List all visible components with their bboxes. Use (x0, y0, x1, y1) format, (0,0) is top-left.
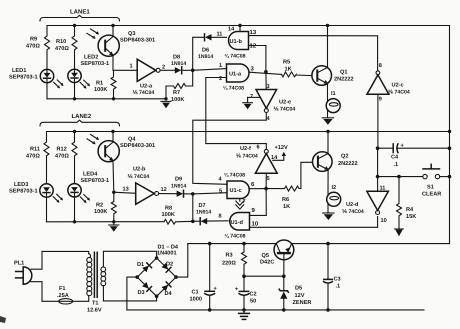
svg-text:R9: R9 (30, 37, 37, 43)
svg-text:C1: C1 (192, 290, 199, 296)
wire Q2 collector riser (327, 132, 329, 154)
transistor Q1 (312, 66, 332, 86)
wire Q5 emitter bus to right rail (292, 243, 450, 245)
resistor R2 (111, 192, 116, 222)
svg-text:U2-c: U2-c (392, 83, 404, 89)
svg-text:LED4: LED4 (83, 171, 98, 177)
diode D7 (193, 218, 228, 225)
svg-text:¼ 74C08: ¼ 74C08 (225, 234, 246, 240)
inverter U2-e (256, 72, 277, 113)
ground under C2 (239, 310, 250, 320)
junction dots top rail (73, 24, 76, 27)
ground lane1 (161, 101, 171, 108)
svg-text:⅙ 74C04: ⅙ 74C04 (388, 89, 410, 95)
capacitor C4 (378, 144, 450, 153)
svg-text:220Ω: 220Ω (222, 261, 236, 267)
op-amp U2-a inverter (137, 59, 160, 81)
inverter U2-f (255, 149, 277, 173)
svg-text:U2-d: U2-d (346, 201, 359, 208)
capacitor C3 (324, 244, 333, 310)
svg-text:100K: 100K (94, 87, 107, 93)
svg-text:470Ω: 470Ω (55, 154, 69, 160)
svg-text:D5: D5 (295, 285, 302, 291)
svg-text:CLEAR: CLEAR (422, 192, 441, 198)
svg-text:LED3: LED3 (14, 182, 28, 188)
svg-text:⅙ 74C04: ⅙ 74C04 (236, 153, 258, 159)
LED3 (40, 184, 63, 203)
svg-text:13: 13 (123, 187, 129, 193)
svg-text:.25A: .25A (57, 293, 69, 299)
wire +12V top rail (47, 25, 450, 27)
lamp I2 (327, 192, 341, 206)
svg-text:R4: R4 (406, 207, 414, 213)
svg-text:100K: 100K (171, 97, 184, 103)
diode D8 (175, 67, 193, 74)
svg-text:1N914: 1N914 (196, 209, 211, 215)
wire LED3 cathode to lane2 ground bus (46, 197, 48, 222)
svg-text:R5: R5 (283, 60, 290, 66)
svg-text:470Ω: 470Ω (55, 46, 69, 52)
svg-text:12V: 12V (295, 293, 305, 299)
resistor R7 (166, 70, 193, 99)
svg-text:2N2222: 2N2222 (338, 161, 358, 167)
svg-text:10: 10 (381, 218, 387, 224)
svg-text:F1: F1 (59, 286, 66, 292)
scan artifact bottom-left corner (0, 316, 6, 323)
LED2 (68, 69, 90, 88)
svg-text:+12V: +12V (275, 145, 288, 151)
wire U1-b pin13 to U2-c output (249, 36, 378, 71)
plug PL1 (16, 267, 32, 284)
svg-text:C3: C3 (334, 277, 341, 283)
svg-text:1: 1 (219, 63, 222, 69)
svg-text:T1: T1 (92, 301, 99, 307)
ground under I1 (322, 110, 333, 125)
svg-text:SEP8703-1: SEP8703-1 (9, 75, 38, 81)
wire bridge positive riser (176, 244, 188, 278)
wire Q1 collector riser (327, 26, 329, 68)
wire lane2 ground bus (47, 221, 165, 223)
wire Q4 emitter node to U2-b input (114, 192, 136, 193)
wire R6 to Q2 base (301, 162, 312, 188)
svg-text:U2-e: U2-e (279, 99, 291, 105)
switch S1 (423, 164, 440, 179)
wire U1-b pin12 to U1-a output (249, 46, 266, 72)
svg-text:⅙ 74C04: ⅙ 74C04 (133, 90, 155, 96)
resistor R12 (72, 132, 77, 184)
svg-text:1N914: 1N914 (171, 183, 186, 189)
svg-text:U1-d: U1-d (231, 219, 244, 226)
svg-text:D6: D6 (202, 48, 209, 54)
svg-text:10: 10 (252, 221, 259, 228)
svg-text:U2-a: U2-a (140, 83, 153, 89)
svg-text:D9: D9 (175, 176, 182, 182)
AND gate U1-a (227, 64, 250, 82)
svg-text:LANE1: LANE1 (70, 9, 90, 16)
wire U1-a pin 2 to U2-f output (206, 78, 266, 150)
svg-text:R11: R11 (30, 147, 40, 153)
svg-text:14: 14 (271, 155, 278, 161)
capacitor C1 (205, 244, 215, 310)
svg-text:9: 9 (379, 97, 382, 103)
svg-text:1K: 1K (285, 66, 292, 72)
lamp I1 (326, 99, 340, 113)
svg-text:U1-b: U1-b (230, 38, 243, 45)
wire N1 up to D6 (193, 37, 204, 70)
LANE2 bracket (40, 120, 120, 126)
transistor Q2 (313, 152, 333, 172)
svg-text:Q3: Q3 (128, 31, 135, 37)
wire N2a to U1-c pin 5 (193, 193, 227, 194)
svg-text:5: 5 (219, 189, 222, 195)
svg-text:SDP8403-301: SDP8403-301 (120, 143, 155, 149)
resistor R1 (111, 70, 116, 99)
svg-text:R3: R3 (226, 253, 233, 259)
phototransistor Q4 (87, 132, 119, 193)
svg-text:8: 8 (379, 63, 382, 69)
resistor R8 (164, 219, 193, 224)
svg-text:⅙ 74C04: ⅙ 74C04 (342, 209, 364, 215)
svg-text:R8: R8 (165, 205, 172, 211)
svg-text:U2-f: U2-f (240, 145, 251, 152)
wire U2-f input from U1-c out node (265, 173, 267, 188)
inverter U2-b (136, 183, 159, 204)
svg-text:I1: I1 (331, 91, 336, 97)
svg-text:SDP8403-301: SDP8403-301 (120, 37, 155, 43)
node N1 (191, 69, 195, 73)
wire U2-e output to U1-c pin 4 (feedback) (193, 113, 266, 185)
AND gate U1-c (227, 181, 249, 199)
diode D6 (205, 34, 227, 41)
svg-text:¼ 74C08: ¼ 74C08 (224, 172, 245, 178)
svg-text:470Ω: 470Ω (26, 154, 40, 160)
wire secondary bottom to bridge (103, 286, 156, 301)
svg-text:11: 11 (217, 31, 223, 37)
svg-text:I2: I2 (332, 185, 337, 191)
svg-text:14: 14 (228, 27, 235, 33)
svg-text:470Ω: 470Ω (26, 44, 40, 50)
svg-text:12.6V: 12.6V (87, 308, 102, 314)
wire secondary top to bridge (103, 251, 156, 266)
svg-text:SEP8703-1: SEP8703-1 (81, 178, 110, 184)
svg-text:U1-a: U1-a (229, 72, 242, 78)
svg-text:Q1: Q1 (340, 70, 347, 76)
resistor R3 (242, 244, 247, 277)
ground under I2 (323, 203, 334, 220)
svg-text:ZENER: ZENER (293, 300, 312, 306)
svg-text:¼ 74C08: ¼ 74C08 (225, 54, 246, 60)
svg-text:.1: .1 (336, 284, 341, 290)
LANE1 bracket (40, 15, 120, 21)
svg-text:SEP8703-1: SEP8703-1 (81, 61, 110, 67)
svg-text:R7: R7 (173, 90, 180, 96)
AND gate U1-d (mirrored) (230, 213, 250, 231)
capacitor C2 (239, 276, 249, 310)
resistor R4 (397, 177, 402, 229)
svg-text:7: 7 (243, 199, 246, 205)
wire U2-a output to D8 (160, 69, 175, 71)
svg-text:11: 11 (380, 186, 386, 192)
svg-text:12: 12 (161, 187, 167, 193)
svg-text:R6: R6 (282, 197, 289, 203)
svg-text:R1: R1 (96, 80, 103, 86)
svg-text:¼ 74C08: ¼ 74C08 (223, 86, 244, 92)
+12V arrow U2-f pin 14 (273, 152, 286, 161)
resistor R6 (266, 186, 301, 191)
svg-text:D3: D3 (138, 290, 145, 296)
wire Q3 emitter node to U2-a input (113, 69, 137, 71)
svg-text:1K: 1K (283, 204, 290, 210)
svg-text:C4: C4 (391, 155, 399, 161)
svg-text:D2: D2 (166, 262, 173, 268)
svg-text:D8: D8 (173, 54, 180, 60)
svg-text:D42C: D42C (260, 260, 274, 266)
svg-text:1N4001: 1N4001 (157, 251, 177, 257)
ground under R2 (109, 222, 119, 232)
svg-text:8: 8 (219, 214, 222, 220)
svg-text:⅙ 74C04: ⅙ 74C04 (128, 174, 150, 180)
svg-text:R12: R12 (57, 147, 67, 153)
ground arrow under R4 (395, 229, 404, 236)
svg-text:12: 12 (250, 43, 257, 50)
resistor R10 (72, 26, 77, 70)
wire +12V unregulated bus (188, 243, 277, 245)
bridge rectifier D1-D4 (137, 258, 176, 296)
fuse F1 (59, 299, 73, 304)
svg-text:50: 50 (250, 298, 256, 304)
svg-text:PL1: PL1 (14, 261, 24, 267)
wire lane2 +12V rail (47, 131, 450, 133)
svg-text:LED2: LED2 (84, 55, 98, 61)
svg-text:C2: C2 (250, 292, 257, 298)
svg-text:U1-c: U1-c (230, 188, 242, 194)
svg-text:.1: .1 (394, 162, 399, 168)
LED4 (68, 184, 90, 203)
svg-text:D7: D7 (199, 203, 206, 209)
svg-text:Q2: Q2 (341, 153, 348, 159)
node N2a (191, 192, 195, 196)
transistor Q5 (274, 240, 294, 276)
wire R3 to Q5 base node (244, 275, 284, 277)
resistor R5 (282, 72, 312, 77)
svg-text:LED1: LED1 (12, 68, 26, 74)
wire lane1 ground bus (47, 98, 166, 100)
svg-text:5: 5 (267, 176, 270, 182)
wire U2-b output to D9 (159, 193, 177, 195)
AND gate U1-b (mirrored) (229, 32, 249, 50)
svg-text:2N2222: 2N2222 (334, 76, 354, 82)
svg-text:3: 3 (267, 84, 270, 90)
LED1 (40, 69, 63, 88)
wire N2a to N2b (192, 194, 194, 221)
node N2b (191, 220, 195, 224)
svg-text:U2-b: U2-b (133, 166, 146, 173)
inverter U2-d (367, 191, 389, 214)
wire plug to fuse to primary bottom (31, 282, 59, 302)
svg-text:100K: 100K (94, 209, 107, 215)
junction dots power section (208, 242, 212, 246)
wire ground bus (127, 309, 424, 311)
svg-text:1N914: 1N914 (171, 61, 186, 67)
svg-text:R2: R2 (96, 202, 103, 208)
wire S1 row (378, 176, 423, 178)
svg-text:6: 6 (257, 145, 260, 151)
phototransistor Q3 (87, 26, 119, 71)
svg-text:15K: 15K (406, 214, 416, 220)
wire bridge negative to ground bus (127, 277, 137, 310)
svg-text:S1: S1 (427, 185, 434, 191)
wire clear node (377, 148, 379, 191)
wire U1-c out to U1-d pin 9 (250, 189, 267, 216)
svg-text:LANE2: LANE2 (72, 113, 92, 120)
resistor R9 (45, 26, 50, 70)
resistor R11 (44, 132, 49, 184)
svg-text:Q5: Q5 (262, 253, 269, 259)
svg-text:1N914: 1N914 (198, 54, 213, 60)
svg-text:100K: 100K (162, 212, 175, 218)
zener diode D5 (279, 276, 288, 310)
inverter U2-c (367, 71, 389, 148)
wire LED4 cathode to lane2 ground bus (74, 197, 76, 222)
wire N1 to U1-a pin 1 (193, 69, 227, 71)
wire LED1 cathode to ground bus (46, 83, 48, 99)
wire plug to transformer primary top (31, 251, 89, 269)
svg-text:⅙ 74C04: ⅙ 74C04 (274, 106, 296, 112)
ground arrow U1-c pin 7 (236, 199, 244, 210)
svg-text:2: 2 (219, 76, 222, 82)
svg-text:R10: R10 (56, 39, 66, 45)
junction dots lane2 (73, 130, 76, 133)
ground U2-e pin 7 (243, 97, 260, 109)
transformer T1 (87, 252, 106, 297)
wire +12V right rail (449, 26, 451, 244)
diode D9 (177, 190, 193, 197)
wire U1-a output node (249, 72, 282, 74)
svg-text:D4: D4 (165, 291, 173, 297)
wire U1-c output node (249, 188, 266, 190)
svg-text:1: 1 (130, 63, 133, 69)
svg-text:1000: 1000 (190, 297, 202, 303)
wire LED2 cathode to ground bus (74, 83, 76, 99)
wire Q2 emitter to lamp I2 (327, 170, 329, 196)
svg-text:SEP8703-1: SEP8703-1 (9, 189, 38, 195)
wire Q1 emitter to lamp I1 (327, 84, 329, 102)
svg-text:D1: D1 (137, 262, 144, 268)
svg-text:Q4: Q4 (128, 136, 136, 142)
wire U1-d pin10 to U2-d output (250, 217, 378, 228)
